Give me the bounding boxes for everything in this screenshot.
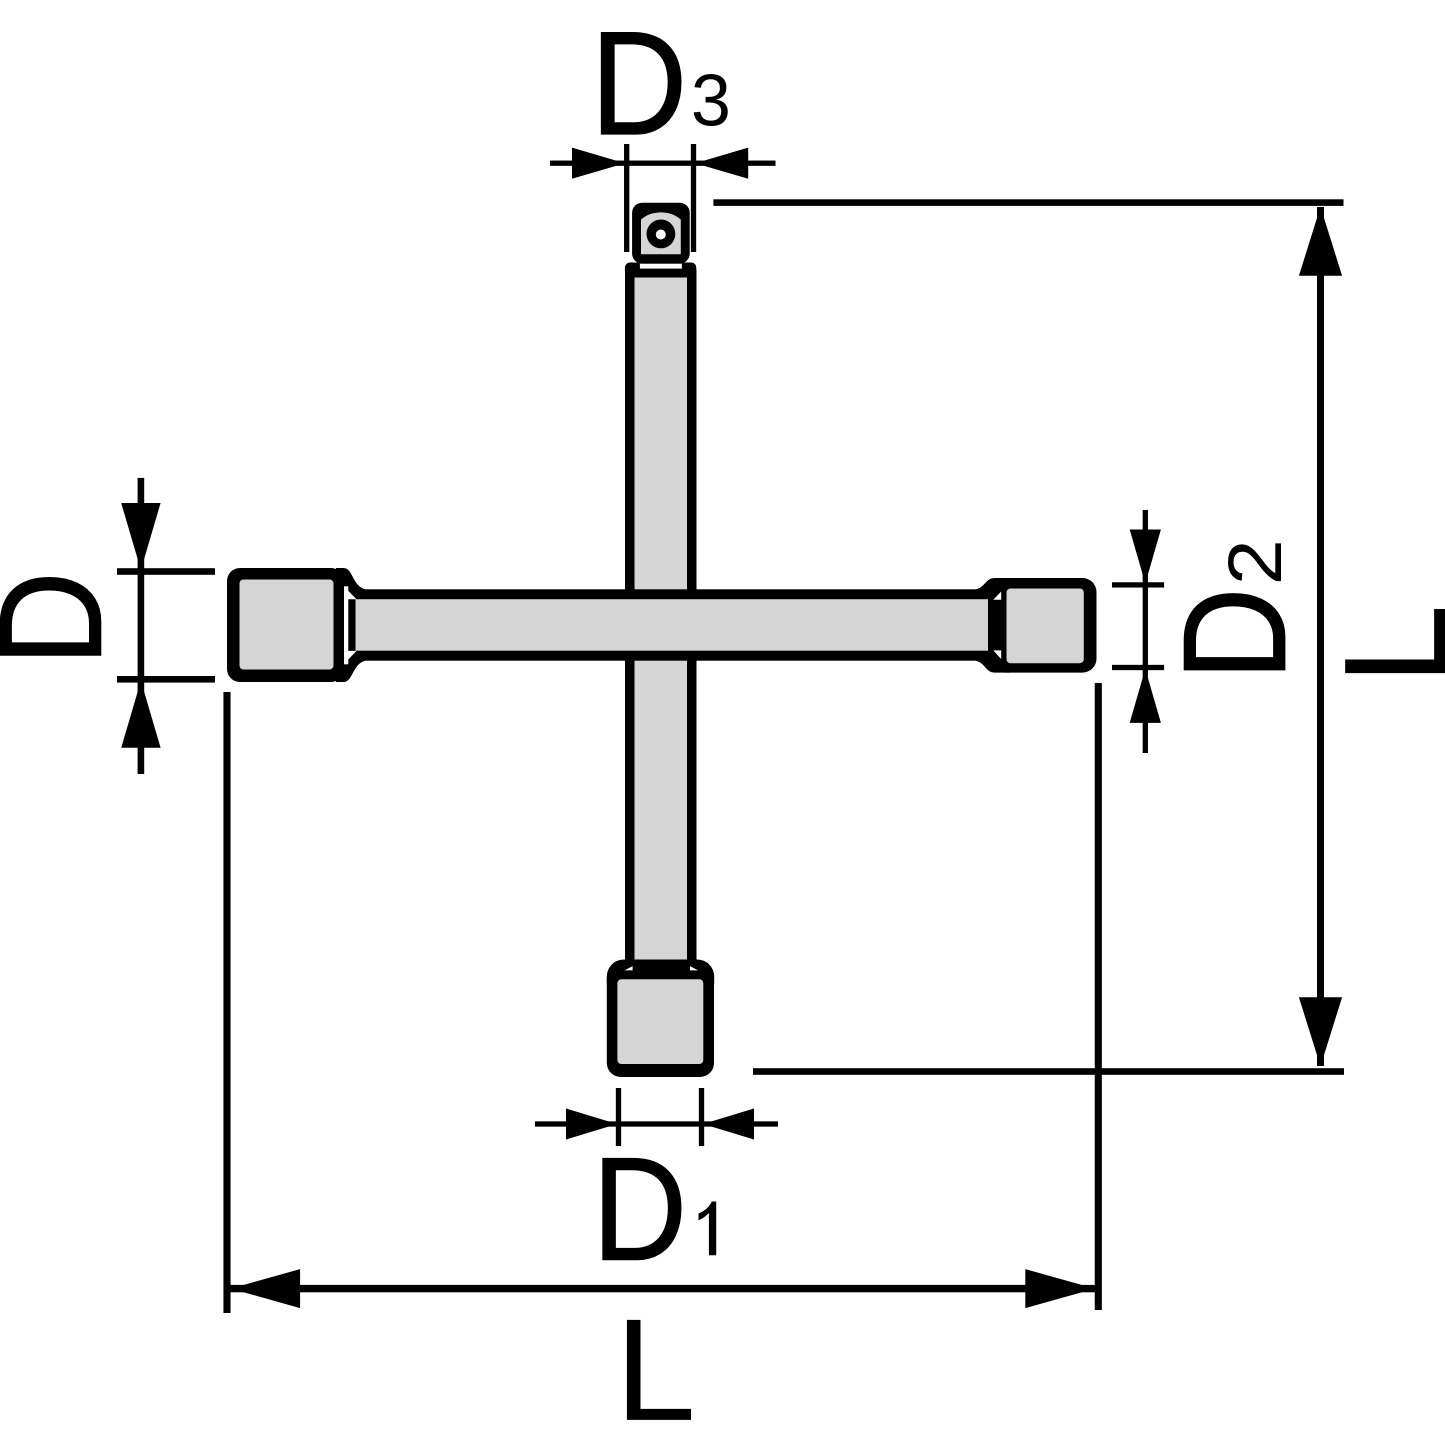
svg-text:D: D <box>592 1127 687 1291</box>
svg-text:D: D <box>0 571 132 666</box>
svg-text:L: L <box>615 1288 696 1445</box>
svg-text:L: L <box>1313 604 1445 685</box>
svg-text:2: 2 <box>1212 539 1297 585</box>
svg-text:D: D <box>1154 588 1316 681</box>
svg-text:D: D <box>591 1 688 165</box>
svg-text:3: 3 <box>691 60 731 142</box>
